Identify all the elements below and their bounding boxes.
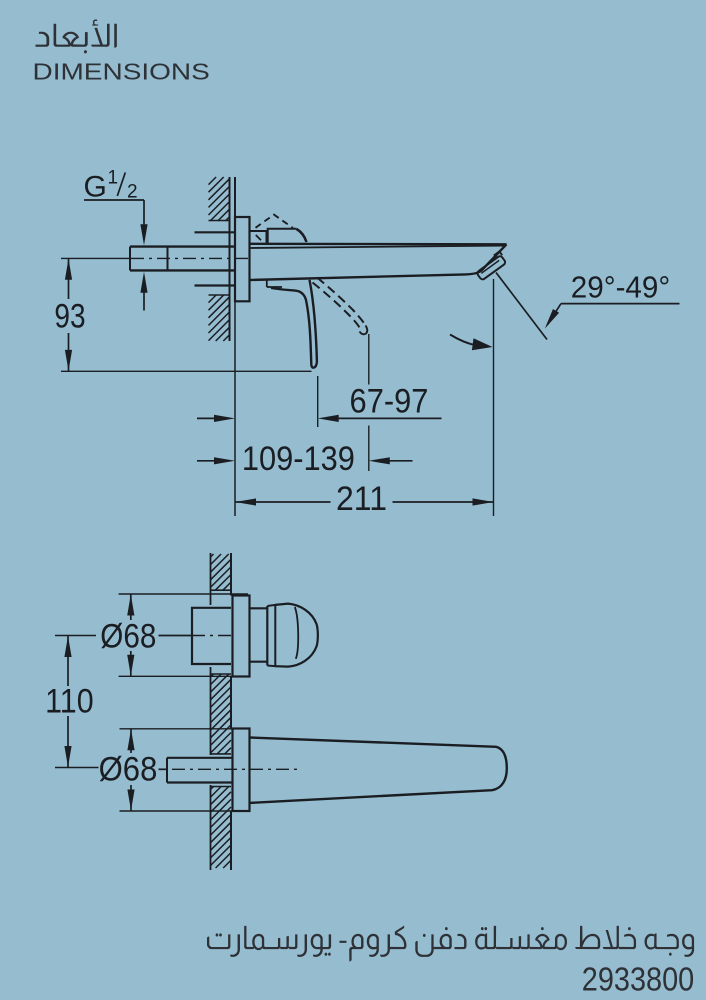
concealed rough-in body [195, 231, 236, 233]
wall hatching (front view) [211, 554, 232, 868]
pipe centre line [61, 257, 131, 259]
dimension 110 [55, 635, 96, 637]
dimension 67-97 [317, 376, 319, 427]
rough-in supply pipe (front view) [167, 757, 233, 759]
wall hole edges (side view) [209, 220, 230, 222]
aerator at spout tip [474, 251, 507, 280]
svg-text:1: 1 [108, 168, 119, 189]
lever handle down (solid) [266, 281, 268, 288]
dimension O68 top [119, 593, 248, 595]
svg-text:93: 93 [54, 297, 85, 335]
escutcheon plate (side view) [235, 217, 250, 301]
dimension 211 [493, 279, 495, 516]
spout escutcheon plate [233, 729, 250, 812]
svg-text:29°-49°: 29°-49° [571, 271, 671, 305]
handle centre line [159, 635, 193, 637]
svg-text:110: 110 [45, 683, 94, 721]
svg-text:DIMENSIONS: DIMENSIONS [33, 59, 210, 85]
swivel arc arrow [450, 335, 476, 346]
wall lines (front view) [210, 553, 212, 605]
concealed valve body (front view) [192, 608, 231, 664]
G1/2 inlet pipe [130, 245, 235, 247]
dimension O68 bottom [120, 728, 244, 730]
wall hole edges (front view) [211, 589, 232, 591]
dimension 109-139 [368, 334, 370, 385]
svg-text:Ø68: Ø68 [99, 751, 158, 789]
svg-text:2933800: 2933800 [582, 960, 694, 997]
spout centre line [159, 768, 169, 770]
arabic title [36, 20, 117, 54]
valve stem above spout [250, 231, 267, 244]
lever handle up position (dashed) [256, 215, 294, 228]
spout (side view) [250, 243, 507, 246]
handle base and dome [250, 607, 268, 609]
handle escutcheon plate [233, 596, 250, 677]
arabic description line [207, 926, 694, 962]
lever handle forward position (dashed) [317, 278, 366, 326]
svg-text:G: G [84, 171, 107, 204]
spout tube (front view) [250, 738, 507, 803]
angle reference line [496, 273, 547, 340]
svg-text:67-97: 67-97 [350, 383, 429, 421]
wall hatching (side view) [209, 177, 230, 341]
svg-text:109-139: 109-139 [242, 440, 355, 478]
svg-text:211: 211 [336, 480, 387, 518]
svg-text:Ø68: Ø68 [100, 618, 156, 656]
G1/2 lower arrow [140, 272, 147, 293]
dimension 93 [61, 370, 312, 372]
G1/2 leader line [84, 199, 144, 201]
wall lines (side view) [229, 177, 231, 341]
